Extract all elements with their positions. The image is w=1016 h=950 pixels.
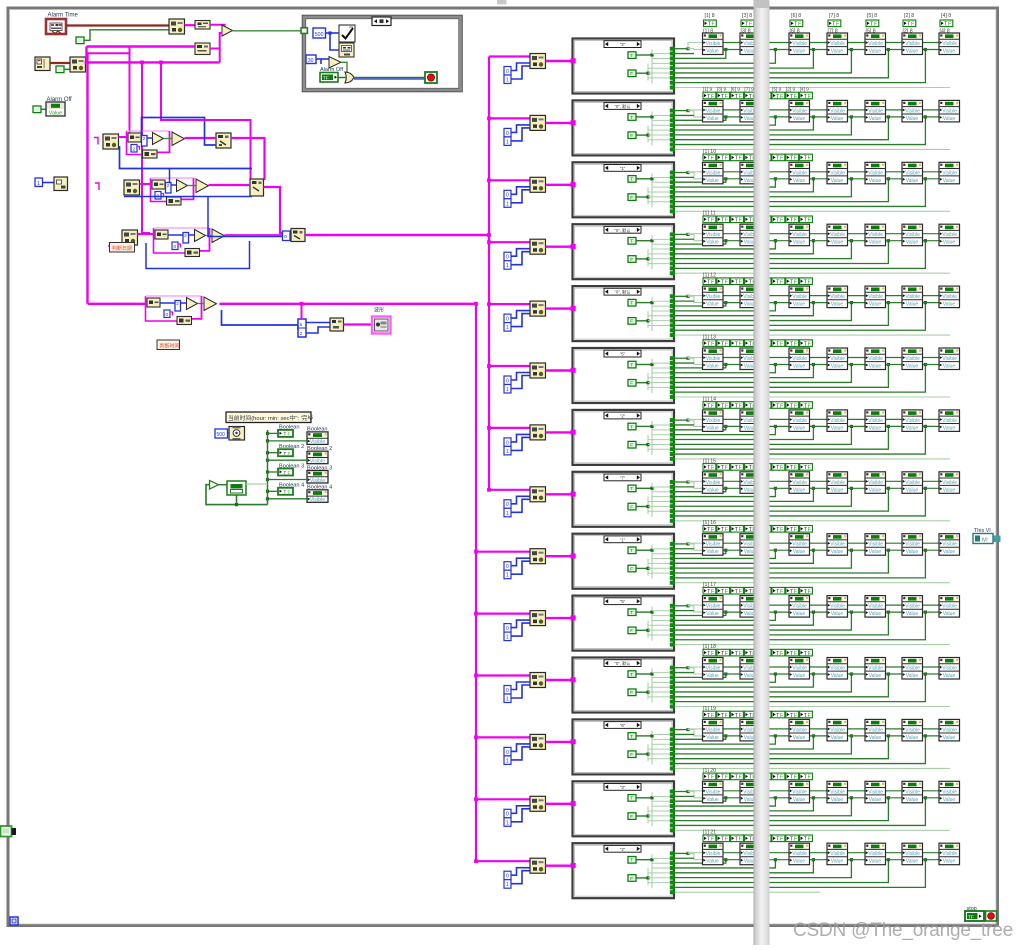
local boolean strip 1 row 13 [703,773,716,781]
property node col2 row 2 [740,100,761,122]
wire visible link col6 row 2 [923,109,940,111]
case selector label row 3 [604,165,641,172]
case internal wires row 8 [637,487,653,489]
local boolean strip 6 row 8 [772,464,785,472]
case output tunnel 7 row 7 [670,447,675,451]
property node Boolean 2 Visible [307,451,328,464]
property node col2 row 11 [740,658,761,680]
case output tunnel 9 row 1 [670,86,675,90]
wire value link col4 row 6 [848,364,866,366]
case output tunnel 8 row 7 [670,452,675,456]
case output tunnel 5 row 14 [670,871,675,875]
svg-text:"0", 默认: "0", 默认 [614,289,631,296]
wire tunnel 3 to riser 1 row 7 [675,426,726,429]
stop condition red circle [986,911,997,921]
wire E1 to comparison triangle [210,25,225,28]
wire visible link col3 row 11 [810,666,828,668]
wire visible link col3 row 2 [810,109,828,111]
feeder constants row 7 [504,434,530,455]
wire C2 to trunk1 [225,234,283,236]
boolean constant F in case row 4 [628,256,636,263]
case output tunnel 4 row 13 [670,804,675,808]
wire tunnel 7 to riser 5 row 1 [675,50,888,78]
case output tunnel 4 row 10 [670,618,675,622]
wire trunk branch row 2 [489,117,530,119]
wire visible link col3 row 14 [810,852,828,854]
wire triangle to or gate [341,62,347,72]
case output tunnel 6 row 3 [670,195,675,199]
local boolean strip 1 row 11 [703,649,716,657]
junction on H1 wire at x161 [159,61,163,65]
local boolean strip 5 row 12 [758,711,771,719]
wire bundle row 9 [675,543,688,545]
svg-text:2: 2 [167,183,170,188]
wire vertical x86.5 joining rows [85,47,87,63]
wire value link col2 row 12 [761,735,790,737]
local boolean strip 4 row 14 [744,835,757,843]
wire value link col6 row 14 [923,859,940,861]
case input tunnel pink row 11 [571,677,576,682]
local boolean strip 7 row 14 [786,835,799,843]
case output tunnel 3 row 9 [670,552,675,556]
svg-text:"2": "2" [620,42,626,47]
wire H0 to H1 [50,62,70,64]
wire visible link col4 row 9 [848,542,866,544]
local boolean strip 5 row 5 [758,278,771,286]
boolean local Alarm Off in loop [320,73,338,83]
blue wire under cluster B [169,169,171,184]
local boolean strip 3 row 11 [731,649,744,657]
wire visible link col4 row 3 [848,171,866,173]
case output tunnel 1 row 5 [670,294,675,298]
svg-text:T: T [284,490,287,495]
wire tunnel 8 to riser 6 row 5 [675,303,925,331]
case input tunnel pink row 14 [571,863,576,868]
wire visible link col6 row 4 [923,233,940,235]
local boolean [7] 8 [828,20,841,28]
time format vi icon [339,43,354,57]
wire value link col3 row 13 [810,797,828,799]
case output tunnel 4 row 6 [670,371,675,375]
case output tunnel 7 row 5 [670,323,675,327]
local boolean strip 6 row 14 [772,835,785,843]
local boolean strip 2 row 13 [717,773,730,781]
svg-text:T: T [630,362,633,367]
local boolean strip 1 row 7 [703,402,716,410]
property node col6 row 9 [902,534,923,556]
svg-text:[3] 9: [3] 9 [717,86,727,92]
wire tunnel 4 to riser 2 row 5 [675,303,775,311]
local boolean strip 4 row 2 [744,92,757,100]
boolean constant T in case row 5 [628,299,636,306]
local boolean strip 8 row 13 [800,773,813,781]
case selector label row 14 [604,845,641,852]
triangle equal small [187,298,198,310]
local boolean strip 8 row 2 [800,92,813,100]
case output tunnel 9 row 4 [670,271,675,275]
property node col6 row 1 [902,33,923,55]
property node col7 row 13 [939,781,960,803]
case output tunnel 3 row 13 [670,799,675,803]
case output tunnel 2 row 13 [670,794,675,798]
wire value link col2 row 9 [761,549,790,551]
boolean constant F in case row 2 [628,132,636,139]
local boolean strip 6 row 9 [772,526,785,534]
wire tunnel 7 to riser 5 row 9 [675,550,888,573]
wire value link col5 row 13 [886,797,903,799]
case output tunnel 8 row 11 [670,700,675,704]
cluster compare sub-block at 128,133 [127,131,143,155]
wire visible link col3 row 1 [810,42,828,44]
wire visible link col1 row 4 [723,233,740,235]
wire trunk branch row 7 [489,427,530,429]
wire visible link col1 row 7 [723,418,740,420]
case output tunnel 9 row 2 [670,147,675,151]
wire visible link col4 row 1 [848,42,866,44]
local boolean strip 5 row 3 [758,154,771,162]
case output tunnel 6 row 9 [670,566,675,570]
case structure row 12 [573,719,675,774]
property node col5 row 14 [865,843,886,865]
local boolean strip 4 row 5 [744,278,757,286]
case internal wires row 3 [637,178,653,180]
wire light extra row 13 [675,829,950,831]
boolean constant F in case row 14 [628,875,636,882]
wire trunk branch row 1 [489,55,530,57]
property node col2 row 1 [740,33,761,55]
svg-text:IVI: IVI [982,538,988,544]
wire value link col2 row 2 [761,116,790,118]
wire visible link col4 row 13 [848,790,866,792]
wire visible link col2 row 4 [761,233,790,235]
property node col1 row 3 [703,162,724,184]
wire tunnel 5 to riser 3 row 9 [675,550,813,563]
svg-text:"1": "1" [620,537,626,542]
case output tunnel 8 row 10 [670,638,675,642]
boolean constant F in case row 3 [628,194,636,201]
wire tunnel 3 to riser 1 row 4 [675,241,726,244]
wire value link col1 row 1 [723,49,740,51]
wire C1 to cluster C [138,233,156,235]
wire tunnel 7 to riser 5 row 3 [675,179,888,202]
case output tunnel 6 row 13 [670,814,675,818]
boolean constant F in case row 10 [628,627,636,634]
local boolean strip 3 row 2 [731,92,744,100]
wire visible link col4 row 8 [848,480,866,482]
case output tunnel 9 row 11 [670,705,675,709]
wire value link col5 row 14 [886,859,903,861]
wire visible link col5 row 6 [886,357,903,359]
case output tunnel 5 row 6 [670,376,675,380]
case structure row 9 [573,534,675,589]
wire visible link col2 row 6 [761,357,790,359]
wire value link col2 row 14 [761,859,790,861]
case internal wires row 13 [637,797,653,799]
property node col7 row 2 [939,100,960,122]
local boolean strip 7 row 6 [786,340,799,348]
wire trunk branch row 13 [476,798,530,800]
wire tunnel 3 to riser 1 row 5 [675,303,726,306]
wire tunnel 8 to riser 6 row 7 [675,426,925,454]
case output tunnel 8 row 4 [670,266,675,270]
numeric constant small [172,242,178,250]
case input tunnel pink row 3 [571,182,576,187]
wire F1 to equality node [185,24,196,26]
case output tunnel 9 row 8 [670,519,675,523]
property node col7 row 7 [939,410,960,432]
property node col4 row 3 [827,162,848,184]
boolean constant F in case row 1 [628,70,636,77]
pink bus y120 to B2 [161,119,251,121]
svg-text:2: 2 [176,301,179,306]
wire visible link col2 row 13 [761,790,790,792]
wire value link col1 row 8 [723,487,740,489]
case output tunnel 1 row 9 [670,542,675,546]
case input tunnel pink row 4 [571,244,576,249]
local boolean strip 6 row 7 [772,402,785,410]
compare block2 [185,249,200,257]
wire value link col1 row 14 [723,859,740,861]
wire value link col4 row 7 [848,425,866,427]
wire tunnel 3 to riser 1 row 14 [675,860,726,863]
wire tunnel 5 to riser 3 row 7 [675,426,813,439]
loop iteration terminal bottom-left [10,917,18,925]
boolean constant TF 2 [56,66,64,73]
svg-text:T: T [630,301,633,306]
wire value link col6 row 9 [923,549,940,551]
wire tunnel 5 to riser 3 row 12 [675,736,813,749]
wire block1 blue to triangle [168,234,183,236]
boolean constant T in case row 10 [628,609,636,616]
wire visible link col6 row 10 [923,604,940,606]
case output tunnel 9 row 13 [670,828,675,832]
wire tunnel 5 to riser 3 row 13 [675,798,813,811]
wire tunnel 5 to riser 3 row 10 [675,612,813,625]
wire light extra row 9 [675,582,950,584]
wire bundle row 12 [675,729,688,731]
blue wire cluster D down to index box [222,310,299,330]
wire visible link col2 row 3 [761,171,790,173]
wire feedback loop bottom [206,485,268,505]
wires index box to alarm node [306,322,330,324]
numeric constant 30 [306,55,316,64]
while loop iteration glyph [372,17,391,26]
junction trunk2 start [474,302,478,306]
wire light extra row 6 [675,396,950,398]
local boolean strip 7 row 2 [786,92,799,100]
boolean constant T in case row 9 [628,547,636,554]
local boolean strip 2 row 9 [717,526,730,534]
tunnel This VI on frame [994,536,1001,543]
wire bundle row 5 [675,295,688,297]
blue bus y268 loop [146,241,250,269]
format node G1 [195,43,210,55]
local boolean strip 1 row 9 [703,526,716,534]
wire trunk branch row 5 [489,303,530,305]
wire value link col3 row 9 [810,549,828,551]
wire visible link col5 row 5 [886,295,903,297]
wire J to waveform indicator [344,323,373,325]
wire trunk branch row 4 [489,241,530,243]
wire feeder to case row 4 [546,245,572,247]
wire value link col4 row 11 [848,673,866,675]
cluster compare sub-block at 155,230 [154,228,186,253]
wire trunk branch row 10 [476,612,530,614]
local boolean strip 7 row 8 [786,464,799,472]
case output tunnel 6 row 2 [670,133,675,137]
wire feeder to case row 2 [546,122,572,124]
wire tunnel 4 to riser 2 row 10 [675,612,775,620]
wire tunnel 8 to riser 6 row 14 [675,860,925,888]
case selector label row 1 [604,41,641,48]
wire value link col3 row 3 [810,178,828,180]
wire trunk to Boolean 4 terminal [268,490,279,492]
local boolean strip 5 row 8 [758,464,771,472]
wire tunnel 6 to riser 4 row 3 [675,179,851,197]
svg-text:T: T [630,672,633,677]
case output tunnel 8 row 12 [670,762,675,766]
local boolean strip 2 row 2 [717,92,730,100]
case output tunnel 5 row 13 [670,809,675,813]
boolean constant T in case row 3 [628,176,636,183]
case structure row 3 [573,162,675,217]
local boolean strip 8 row 9 [800,526,813,534]
case output tunnel 1 row 13 [670,790,675,794]
wire visible link col4 row 4 [848,233,866,235]
svg-text:T: T [630,858,633,863]
wire trunk to Boolean 2 terminal [268,452,279,454]
svg-text:T: T [630,610,633,615]
wire triangle output to while loop tunnel (boolean) [233,30,303,32]
wire visible link col5 row 3 [886,171,903,173]
local boolean strip 8 row 12 [800,711,813,719]
wire tunnel 3 to riser 1 row 11 [675,674,726,677]
svg-text:"0", 默认: "0", 默认 [614,660,631,667]
wire tunnel 7 to riser 5 row 14 [675,860,888,883]
local boolean strip 5 row 14 [758,835,771,843]
property node col3 row 12 [789,719,810,741]
wire visible link col5 row 9 [886,542,903,544]
wire visible link col2 row 14 [761,852,790,854]
wire visible link col1 row 10 [723,604,740,606]
wire tunnel 4 to riser 2 row 8 [675,488,775,496]
case structure row 11 [573,658,675,713]
wire value link col1 row 3 [723,178,740,180]
case output tunnel 7 row 14 [670,881,675,885]
property node col3 row 8 [789,472,810,494]
property node col5 row 10 [865,596,886,618]
wire value link col4 row 3 [848,178,866,180]
case output tunnel 8 row 9 [670,576,675,580]
wire bundle row 3 [675,172,688,174]
boolean constant F in case row 12 [628,751,636,758]
svg-text:0: 0 [174,244,177,250]
svg-text:[6] 8: [6] 8 [791,13,801,19]
wire visible link col2 row 9 [761,542,790,544]
case input tunnel pink row 9 [571,554,576,559]
wire value link col2 row 13 [761,797,790,799]
wire feeder to case row 5 [546,307,572,309]
case output tunnel 5 row 8 [670,499,675,503]
wire tunnel 6 to riser 4 row 1 [675,50,851,73]
property node col1 row 4 [703,224,724,246]
case output tunnel 2 row 7 [670,423,675,427]
wire visible link col2 row 11 [761,666,790,668]
svg-text:TF: TF [323,75,329,81]
local boolean strip 8 row 3 [800,154,813,162]
case output tunnel 4 row 3 [670,185,675,189]
property node col5 row 1 [865,33,886,55]
index blue box [183,233,189,244]
boolean constant F in case row 7 [628,441,636,448]
wire value link col4 row 10 [848,611,866,613]
local boolean strip 5 row 7 [758,402,771,410]
compare block1 [152,180,165,189]
local boolean strip 7 row 3 [786,154,799,162]
wire visible link col5 row 8 [886,480,903,482]
wire tunnel 5 to riser 3 row 2 [675,117,813,130]
wire visible link col5 row 7 [886,418,903,420]
waveform indicator 闹钟 [372,317,391,334]
case output tunnel 3 row 4 [670,242,675,246]
svg-text:F: F [288,470,291,475]
wire feeder to case row 9 [546,555,572,557]
wire TF2 to H1 [64,68,70,70]
wire tunnel 4 to riser 2 row 6 [675,365,775,373]
case output tunnel 9 row 7 [670,457,675,461]
svg-text:2: 2 [143,136,146,141]
local boolean strip 5 row 13 [758,773,771,781]
triangle equal large [204,297,217,311]
numeric constant 500 in loop [313,28,326,38]
wire visible link col4 row 14 [848,852,866,854]
local boolean strip 6 row 11 [772,649,785,657]
wire value link col3 row 7 [810,425,828,427]
property node col3 row 1 [789,33,810,55]
case output tunnel 9 row 5 [670,333,675,337]
index blue box [166,183,172,194]
pink input bracket B [95,183,99,190]
local boolean strip 4 row 9 [744,526,757,534]
case selector label row 11 [604,660,641,667]
wire value link col3 row 1 [810,49,828,51]
wire visible link col4 row 7 [848,418,866,420]
boolean constant T in case row 11 [628,671,636,678]
triangle equal large [172,132,185,146]
property node col5 row 3 [865,162,886,184]
svg-text:当前时间(hour: min: sec中": '完毕: 当前时间(hour: min: sec中": '完毕 [228,414,314,422]
local boolean strip 7 row 4 [786,216,799,224]
left frame tunnel green [1,826,12,837]
local boolean strip 2 row 7 [717,402,730,410]
local boolean strip 4 row 10 [744,587,757,595]
junction trunk1 at y235 [487,233,491,237]
wire tunnel 3 to riser 1 row 12 [675,736,726,739]
case structure row 5 [573,286,675,341]
property node col2 row 8 [740,472,761,494]
wire value link col4 row 9 [848,549,866,551]
wire tunnel 6 to riser 4 row 13 [675,798,851,816]
feeder constants row 10 [504,620,530,641]
boolean constant T in case row 13 [628,795,636,802]
wire visible link col6 row 3 [923,171,940,173]
case output tunnel 6 row 5 [670,319,675,323]
local boolean strip 4 row 4 [744,216,757,224]
wire long pink into G1 input y46.5 [87,45,196,47]
wire trunk branch row 3 [489,179,530,181]
local boolean strip 6 row 13 [772,773,785,781]
svg-text:1: 1 [37,181,40,187]
